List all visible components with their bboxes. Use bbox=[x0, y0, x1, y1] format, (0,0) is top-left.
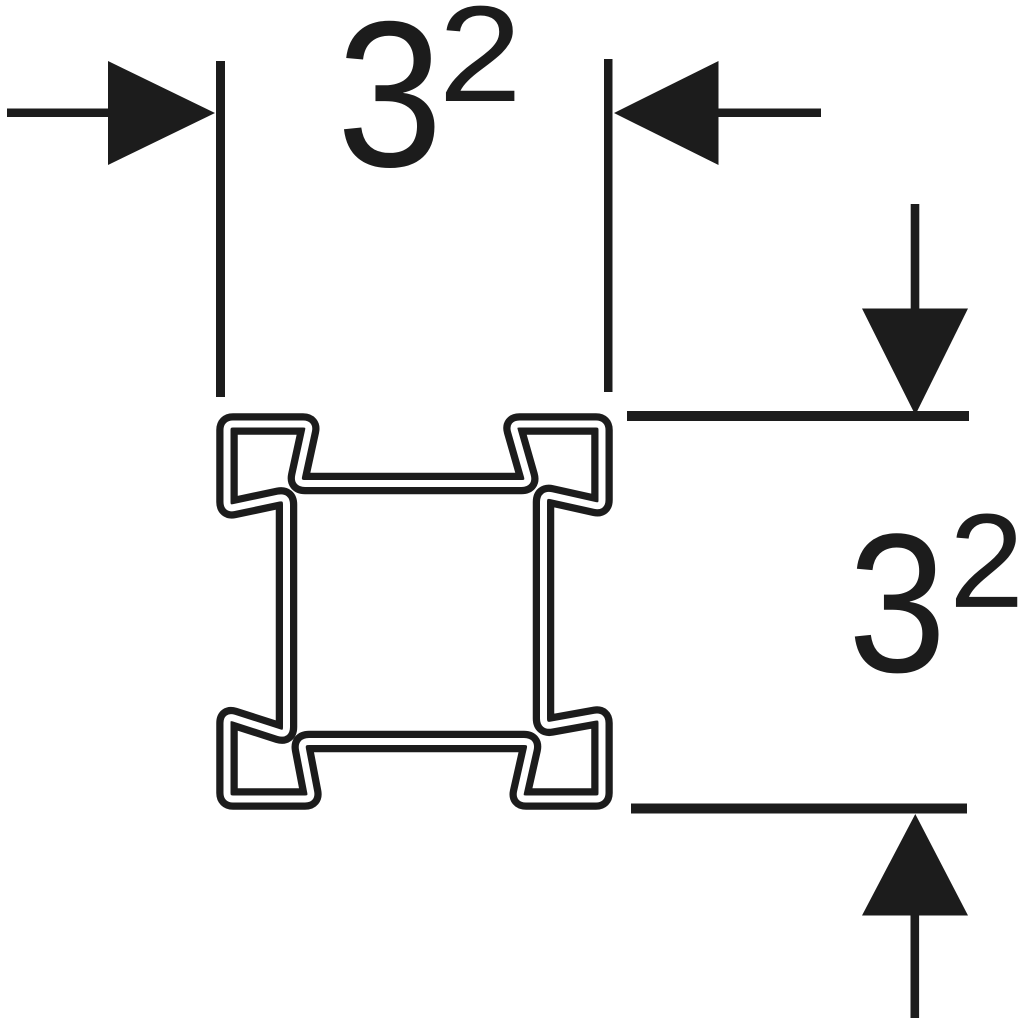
node: right dimension text 3^2 bbox=[848, 492, 946, 714]
svg-text:2: 2 bbox=[438, 0, 522, 131]
wire: left extension line bbox=[216, 61, 225, 397]
wire: lower horizontal extension line bbox=[631, 804, 967, 814]
up arrowhead bbox=[862, 814, 968, 916]
svg-text:3: 3 bbox=[848, 492, 946, 714]
svg-text:3: 3 bbox=[337, 0, 443, 211]
left arrowhead bbox=[108, 61, 215, 165]
wire: right extension line bbox=[604, 59, 613, 392]
right arrowhead bbox=[614, 61, 719, 165]
svg-text:2: 2 bbox=[949, 487, 1021, 636]
wire: right dim tail bbox=[700, 109, 821, 118]
profile cross-section wall bbox=[227, 424, 602, 799]
wire: upper horizontal extension line bbox=[627, 411, 969, 421]
wire: up-arrow stem bbox=[911, 915, 920, 1018]
down arrowhead bbox=[862, 309, 968, 416]
wire: down-arrow stem bbox=[911, 204, 920, 314]
wire: left dim tail bbox=[7, 109, 120, 118]
node: top dimension text 3^2 bbox=[337, 0, 443, 211]
